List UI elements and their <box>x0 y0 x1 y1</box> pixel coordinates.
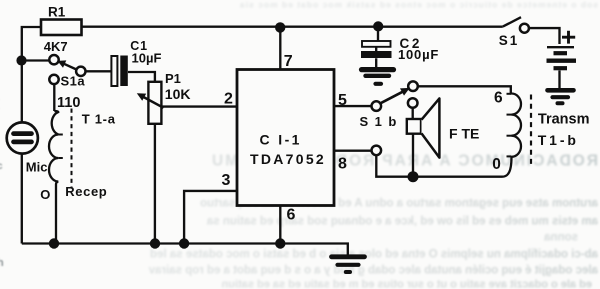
svg-text:alec odagjit é euq ocilén: alec odagjit é euq ocilén anutab alec od… <box>148 265 598 277</box>
svg-text:T1-b: T1-b <box>538 132 579 148</box>
svg-text:100µF: 100µF <box>398 47 439 62</box>
svg-text:h: h <box>0 257 4 269</box>
svg-text:sonna: sonna <box>544 232 578 244</box>
svg-text:ed ale o odaczit ave satiu o u: ed ale o odaczit ave satiu o ut o sur ot… <box>221 279 592 289</box>
svg-text:6: 6 <box>494 89 503 106</box>
svg-text:T 1-a: T 1-a <box>82 112 116 127</box>
svg-text:O: O <box>40 187 50 202</box>
svg-text:Transm: Transm <box>538 111 590 127</box>
svg-text:2: 2 <box>224 90 233 107</box>
svg-text:TDA7052: TDA7052 <box>250 151 326 167</box>
svg-text:8: 8 <box>338 156 347 173</box>
svg-text:4K7: 4K7 <box>44 39 68 54</box>
svg-text:Recep: Recep <box>65 184 107 199</box>
svg-text:110: 110 <box>57 95 80 111</box>
svg-text:P1: P1 <box>165 71 181 86</box>
svg-text:0: 0 <box>492 156 501 173</box>
svg-text:6: 6 <box>287 207 296 224</box>
svg-text:am etsis mu meb es ed lis ow e: am etsis mu meb es ed lis ow ed ,kce a e… <box>206 216 598 228</box>
svg-text:10K: 10K <box>165 86 191 102</box>
svg-text:C I-1: C I-1 <box>260 132 302 148</box>
svg-text:F TE: F TE <box>449 125 479 141</box>
svg-text:ab-ci odacifilpma nu selpmi: ab-ci odacifilpma nu selpmis O etna ed o… <box>150 249 598 261</box>
svg-text:3: 3 <box>222 172 231 189</box>
svg-text:5: 5 <box>338 92 347 109</box>
svg-text:sob o etnemetce de otiucric o: sob o etnemetce de otiucric o moc etnos … <box>239 0 598 10</box>
svg-text:10µF: 10µF <box>132 51 162 66</box>
svg-text:S1: S1 <box>499 33 520 48</box>
svg-text:c: c <box>0 161 3 172</box>
svg-text:R1: R1 <box>48 4 66 19</box>
svg-text:S1a: S1a <box>61 74 86 89</box>
svg-text:S1b: S1b <box>360 114 403 129</box>
svg-text:7: 7 <box>284 53 293 70</box>
svg-text:Mic: Mic <box>26 160 48 175</box>
